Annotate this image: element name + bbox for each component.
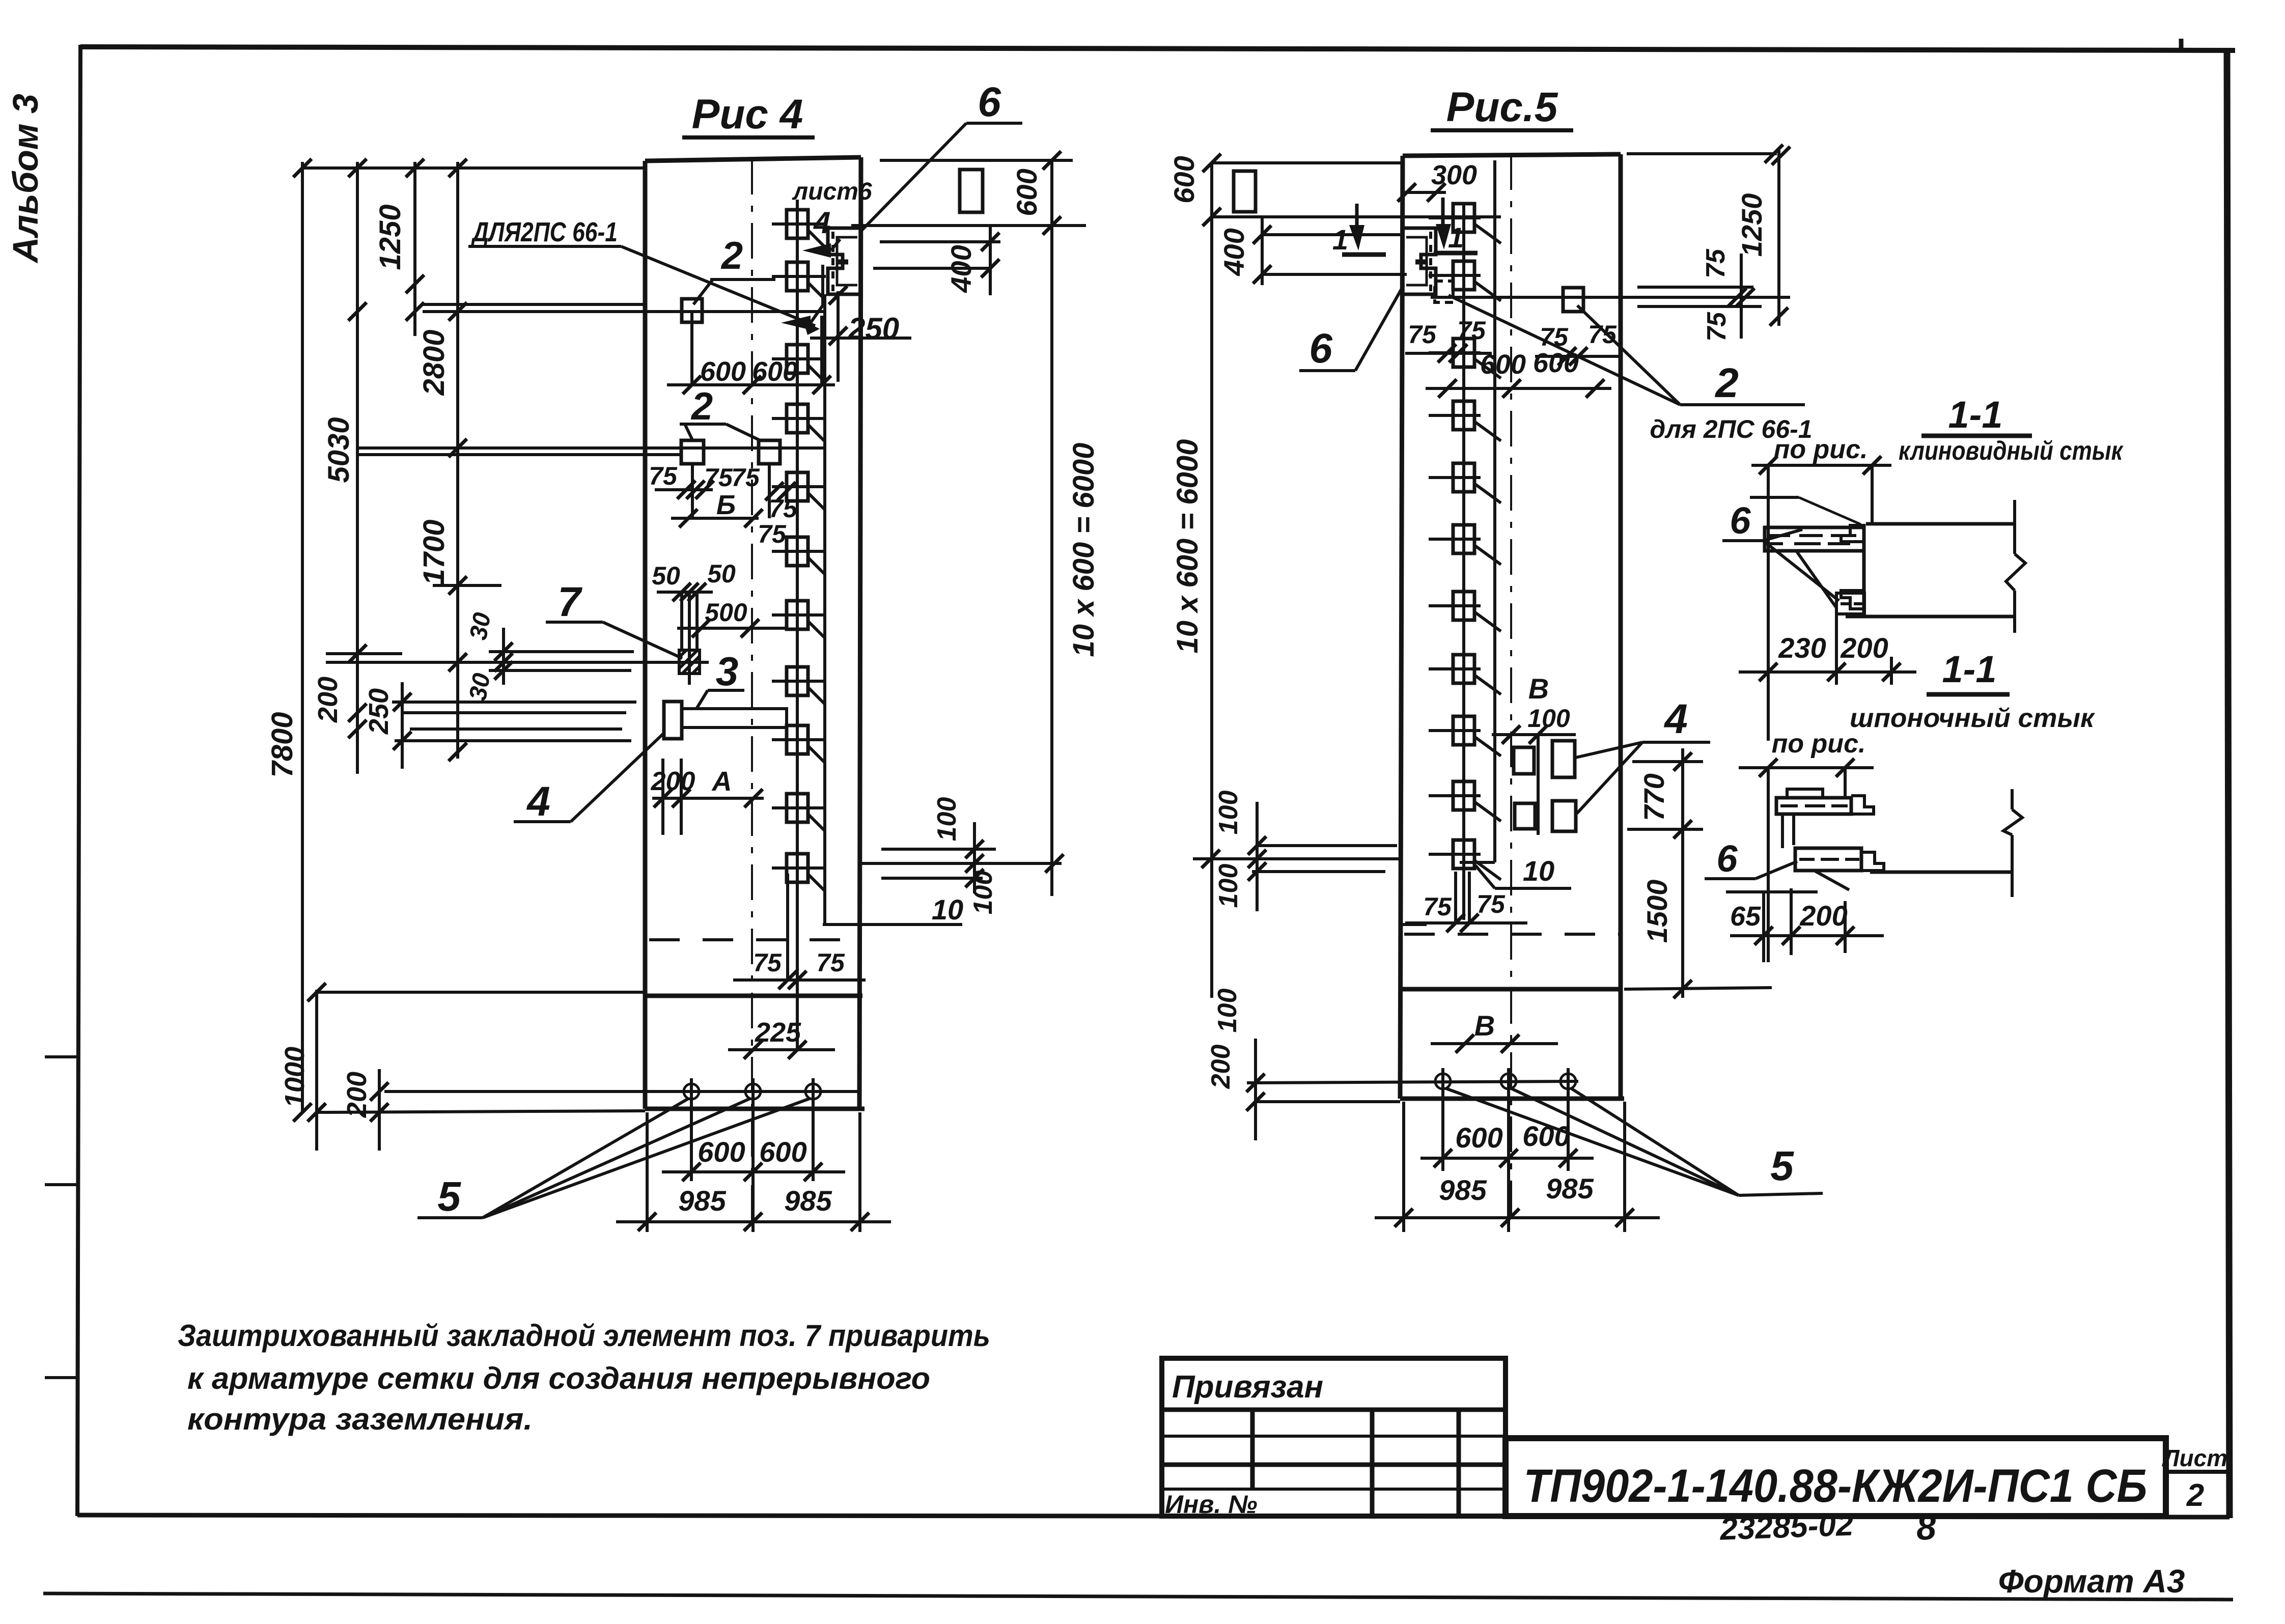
svg-text:4: 4	[526, 778, 550, 825]
svg-text:ТП902-1-140.88-КЖ2И-ПС1 СБ: ТП902-1-140.88-КЖ2И-ПС1 СБ	[1524, 1460, 2148, 1512]
svg-text:Привязан: Привязан	[1172, 1369, 1323, 1405]
svg-text:по рис.: по рис.	[1774, 435, 1868, 464]
svg-text:75: 75	[1588, 320, 1617, 349]
svg-text:250: 250	[848, 312, 899, 346]
svg-text:1: 1	[1448, 221, 1464, 254]
svg-text:75: 75	[1702, 312, 1732, 342]
svg-text:по рис.: по рис.	[1772, 729, 1866, 759]
svg-text:Заштрихованный закладной элем: Заштрихованный закладной элемент поз. 7 …	[178, 1319, 990, 1353]
svg-text:30: 30	[465, 610, 496, 642]
svg-text:6: 6	[978, 79, 1001, 125]
svg-text:1: 1	[1332, 223, 1348, 256]
svg-text:10: 10	[1523, 855, 1554, 887]
svg-text:Альбом 3: Альбом 3	[6, 94, 45, 264]
svg-text:6: 6	[1716, 837, 1738, 880]
svg-text:Формат А3: Формат А3	[1998, 1563, 2185, 1600]
svg-text:2: 2	[690, 385, 713, 428]
svg-text:985: 985	[784, 1185, 832, 1217]
svg-text:75: 75	[769, 494, 798, 523]
svg-text:3: 3	[716, 649, 739, 694]
svg-text:6: 6	[1730, 499, 1751, 542]
svg-text:600: 600	[1480, 349, 1526, 380]
svg-text:2800: 2800	[417, 329, 451, 396]
svg-text:250: 250	[364, 688, 394, 735]
svg-text:985: 985	[1439, 1174, 1487, 1206]
svg-text:600: 600	[1011, 169, 1043, 216]
svg-text:600: 600	[698, 1136, 745, 1168]
svg-text:400: 400	[1218, 228, 1250, 276]
svg-text:400: 400	[945, 245, 977, 293]
svg-text:1-1: 1-1	[1942, 648, 1997, 690]
svg-text:100: 100	[1214, 864, 1243, 908]
svg-text:Инв. №: Инв. №	[1165, 1490, 1257, 1519]
svg-text:Б: Б	[716, 490, 736, 520]
svg-text:200: 200	[1840, 632, 1888, 664]
svg-text:23285-02: 23285-02	[1719, 1507, 1854, 1547]
svg-text:2: 2	[1714, 360, 1739, 406]
svg-text:75: 75	[1540, 323, 1569, 351]
svg-text:А: А	[711, 766, 732, 797]
svg-text:5: 5	[1770, 1143, 1794, 1189]
svg-text:клиновидный стык: клиновидный стык	[1899, 436, 2124, 466]
svg-text:1700: 1700	[417, 519, 451, 585]
svg-text:В: В	[1528, 673, 1549, 705]
svg-text:В: В	[1474, 1010, 1495, 1042]
svg-text:1250: 1250	[1736, 193, 1768, 257]
svg-text:200: 200	[1799, 900, 1847, 932]
svg-text:75: 75	[731, 463, 760, 492]
svg-text:500: 500	[705, 598, 747, 627]
svg-text:75: 75	[1408, 320, 1437, 349]
svg-text:200: 200	[1206, 1045, 1236, 1089]
svg-text:100: 100	[1213, 989, 1242, 1033]
svg-text:600: 600	[752, 356, 798, 387]
svg-text:75: 75	[1701, 248, 1731, 278]
svg-text:600: 600	[1455, 1122, 1502, 1154]
svg-text:985: 985	[678, 1185, 726, 1217]
svg-text:300: 300	[1431, 160, 1477, 190]
svg-text:770: 770	[1638, 773, 1670, 821]
svg-text:200: 200	[313, 677, 343, 723]
svg-text:50: 50	[652, 562, 680, 590]
svg-text:5: 5	[437, 1173, 461, 1220]
svg-text:8: 8	[1915, 1507, 1937, 1548]
svg-text:Лист: Лист	[2162, 1445, 2227, 1471]
svg-text:10 х 600 = 6000: 10 х 600 = 6000	[1067, 443, 1100, 657]
svg-text:2: 2	[2186, 1478, 2204, 1513]
svg-text:7800: 7800	[266, 712, 299, 777]
svg-text:100: 100	[968, 871, 998, 915]
svg-text:100: 100	[1214, 791, 1243, 835]
svg-text:контура заземления.: контура заземления.	[187, 1402, 533, 1436]
svg-text:1-1: 1-1	[1948, 394, 2003, 436]
svg-text:75: 75	[816, 948, 845, 977]
svg-text:75: 75	[1423, 892, 1452, 921]
svg-text:1500: 1500	[1641, 880, 1673, 943]
svg-text:Рис 4: Рис 4	[692, 91, 803, 137]
svg-text:75: 75	[753, 948, 782, 977]
svg-text:100: 100	[932, 797, 962, 842]
svg-text:Рис.5: Рис.5	[1446, 84, 1558, 130]
svg-text:7: 7	[558, 579, 582, 625]
svg-text:230: 230	[1778, 632, 1826, 664]
svg-text:600: 600	[1168, 156, 1200, 203]
svg-text:65: 65	[1730, 901, 1761, 932]
svg-text:600: 600	[759, 1136, 806, 1168]
svg-text:30: 30	[464, 671, 496, 703]
svg-text:75: 75	[649, 462, 678, 490]
svg-text:75: 75	[1476, 890, 1506, 918]
svg-text:шпоночный стык: шпоночный стык	[1850, 704, 2096, 733]
svg-text:4: 4	[1663, 696, 1688, 742]
svg-text:10 х 600 = 6000: 10 х 600 = 6000	[1171, 439, 1204, 654]
svg-text:10: 10	[932, 893, 963, 926]
svg-text:ДЛЯ2ПС 66-1: ДЛЯ2ПС 66-1	[471, 217, 618, 247]
svg-text:75: 75	[1457, 316, 1486, 345]
svg-text:лист6: лист6	[792, 178, 872, 205]
svg-text:1000: 1000	[280, 1047, 310, 1108]
svg-text:5030: 5030	[322, 417, 355, 483]
svg-text:к арматуре сетки для создания: к арматуре сетки для создания непрерывно…	[187, 1361, 930, 1395]
svg-text:1250: 1250	[374, 204, 407, 270]
svg-text:2: 2	[720, 234, 743, 277]
svg-text:600: 600	[700, 356, 746, 387]
svg-text:50: 50	[707, 559, 736, 588]
svg-text:985: 985	[1546, 1172, 1594, 1205]
svg-text:4: 4	[813, 206, 830, 240]
svg-text:100: 100	[1527, 704, 1570, 733]
svg-text:6: 6	[1309, 325, 1333, 372]
svg-text:75: 75	[758, 520, 787, 548]
